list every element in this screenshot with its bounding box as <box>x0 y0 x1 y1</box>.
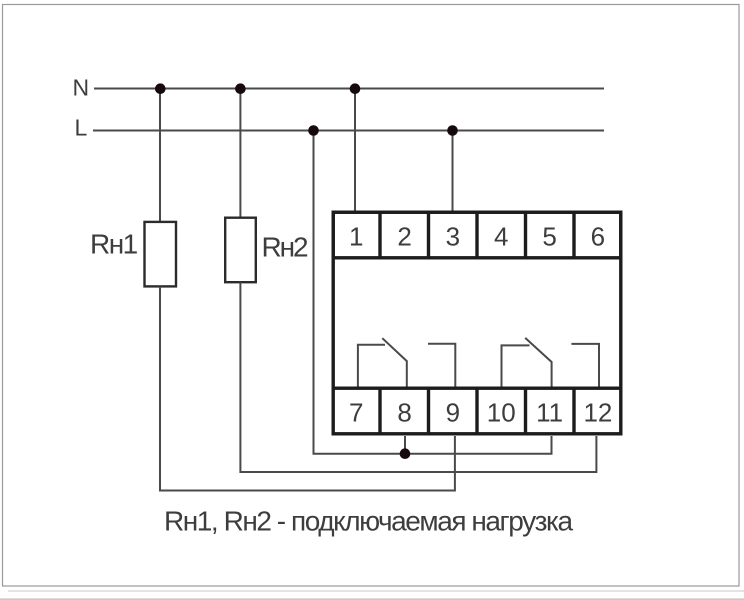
junction dot N/Rн1 <box>155 83 166 94</box>
junction dot L/terminal3 <box>447 125 458 136</box>
wire Rн1 to terminal 9 <box>160 287 455 491</box>
relay contact arm pin 10 <box>502 345 530 387</box>
resistor Rн1 <box>145 222 177 287</box>
svg-text:11: 11 <box>536 398 563 428</box>
relay contact arm pin 12 <box>571 344 599 387</box>
junction dot N/Rн2 <box>235 83 246 94</box>
svg-text:Rн2: Rн2 <box>262 232 308 263</box>
svg-text:2: 2 <box>397 222 411 252</box>
svg-text:12: 12 <box>583 398 612 428</box>
junction dot N/terminal1 <box>350 83 361 94</box>
svg-text:N: N <box>73 75 90 101</box>
svg-text:7: 7 <box>349 398 363 428</box>
svg-text:4: 4 <box>494 222 508 252</box>
relay contact blade pin 8 <box>382 338 407 387</box>
svg-text:10: 10 <box>487 398 516 428</box>
terminal pin labels 1-6 <box>349 222 605 252</box>
relay contact arm pin 9 <box>428 344 455 387</box>
wire L to terminal 11 <box>314 131 552 454</box>
svg-text:6: 6 <box>591 222 605 252</box>
terminal strip top <box>333 212 621 258</box>
wire N to terminal 1 <box>354 89 356 213</box>
svg-text:1: 1 <box>349 222 363 252</box>
junction dot L drop <box>308 125 319 136</box>
svg-text:Rн1, Rн2 - подключаемая нагруз: Rн1, Rн2 - подключаемая нагрузка <box>164 506 573 537</box>
device body outline <box>333 212 621 434</box>
svg-text:Rн1: Rн1 <box>90 229 138 260</box>
wire Rн2 to terminal 12 <box>240 282 596 472</box>
wire L to terminal 3 <box>452 131 454 213</box>
relay contact blade pin 11 <box>525 338 551 387</box>
wire terminal 8 stub <box>404 436 406 454</box>
svg-text:3: 3 <box>446 222 460 252</box>
wire N to Rн2 <box>239 89 241 219</box>
terminal strip bottom <box>333 388 621 434</box>
svg-text:5: 5 <box>542 222 556 252</box>
svg-text:L: L <box>75 115 88 141</box>
resistor Rн2 <box>225 218 256 283</box>
terminal pin labels 7-12 <box>349 398 612 428</box>
wire N bus <box>94 88 604 90</box>
wire N to Rн1 <box>159 89 161 223</box>
svg-text:8: 8 <box>397 398 411 428</box>
relay contact arm pin 7 <box>358 345 385 387</box>
junction dot terminal 8 <box>400 448 411 459</box>
svg-text:9: 9 <box>446 398 460 428</box>
wire L bus <box>93 130 604 132</box>
